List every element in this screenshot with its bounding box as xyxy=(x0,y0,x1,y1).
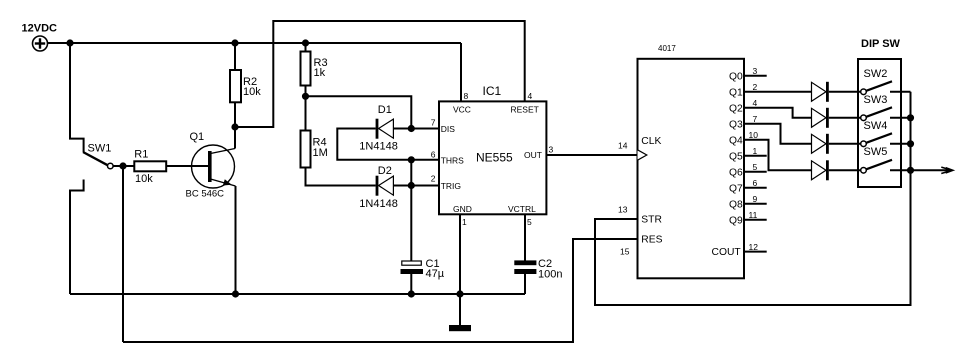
svg-text:7: 7 xyxy=(753,114,758,124)
wire Q9 stub pin11 xyxy=(744,219,767,221)
svg-text:10k: 10k xyxy=(243,86,261,98)
svg-text:Q1: Q1 xyxy=(729,87,743,98)
node junction top rail / R2 xyxy=(232,40,237,45)
svg-text:10: 10 xyxy=(749,130,759,140)
svg-text:GND: GND xyxy=(453,204,472,214)
wire RES pin15 routing to bottom rail xyxy=(123,239,638,342)
svg-text:Q7: Q7 xyxy=(729,183,743,194)
svg-text:DIP SW: DIP SW xyxy=(861,38,901,50)
svg-text:15: 15 xyxy=(620,247,630,257)
svg-text:Q5: Q5 xyxy=(729,151,743,162)
DIP switch box xyxy=(858,59,901,187)
svg-text:7: 7 xyxy=(431,117,436,127)
wire R2 top lead xyxy=(234,43,236,70)
svg-text:D2: D2 xyxy=(378,165,392,177)
capacitor C2 xyxy=(514,260,536,294)
svg-text:D1: D1 xyxy=(378,104,392,116)
wire emitter down to ground rail xyxy=(235,186,237,294)
wire SW1 lower contact to ground rail xyxy=(70,180,84,295)
svg-text:1k: 1k xyxy=(314,67,326,79)
svg-text:STR: STR xyxy=(641,215,662,226)
wire Q2 pin4 to diode xyxy=(744,108,812,118)
op-amp IC1 NE555 box xyxy=(439,101,546,214)
svg-text:NE555: NE555 xyxy=(476,150,513,164)
svg-text:2: 2 xyxy=(753,82,758,92)
node junction SW5 / common / output xyxy=(908,168,913,173)
wire R4 bottom to D2 cathode xyxy=(306,168,376,186)
svg-text:IC1: IC1 xyxy=(483,84,502,98)
svg-text:RES: RES xyxy=(641,235,662,246)
node junction R2 bottom / collector / reset link xyxy=(232,124,237,129)
svg-text:SW4: SW4 xyxy=(864,120,888,132)
transistor Q1 circle xyxy=(192,145,235,188)
node junction GND / ground rail xyxy=(457,291,462,296)
wire output with arrow xyxy=(911,167,954,173)
wire TRIG pin stub xyxy=(411,185,439,187)
wire Q6 stub pin5 xyxy=(744,171,767,173)
wire R1 to Q1 base xyxy=(166,165,208,167)
wire STR pin13 routing to DIP common xyxy=(595,92,911,305)
svg-text:Q2: Q2 xyxy=(729,103,743,114)
switch SW3 xyxy=(861,107,911,120)
wire THRS to TRIG column xyxy=(410,160,412,186)
wire collector to RESET pin4 link xyxy=(235,21,525,127)
svg-text:8: 8 xyxy=(464,91,469,101)
IC 4017 box xyxy=(638,59,745,278)
svg-text:SW1: SW1 xyxy=(88,143,112,155)
wire Q1 pin2 to diode xyxy=(744,91,812,93)
wire node down to bottom rail xyxy=(122,166,124,342)
svg-text:11: 11 xyxy=(749,210,758,220)
wire R2 bottom lead to Q1 collector xyxy=(234,102,236,148)
svg-text:DIS: DIS xyxy=(441,124,456,134)
wire R3 bottom lead to R4 top xyxy=(305,86,307,131)
svg-text:SW3: SW3 xyxy=(864,94,888,106)
svg-text:RESET: RESET xyxy=(511,104,539,114)
wire THRS pin stub xyxy=(411,159,439,161)
svg-text:Q8: Q8 xyxy=(729,199,743,210)
svg-text:R1: R1 xyxy=(134,149,148,161)
wire top supply rail xyxy=(70,42,461,44)
wire Q3 pin7 to diode xyxy=(744,124,812,144)
svg-text:1: 1 xyxy=(462,217,467,227)
wire Q8 stub pin9 xyxy=(744,203,767,205)
switch SW1 blade xyxy=(83,152,108,165)
svg-text:4: 4 xyxy=(528,91,533,101)
svg-text:5: 5 xyxy=(753,162,758,172)
svg-text:5: 5 xyxy=(527,217,532,227)
wire OUT pin3 to CLK pin14 xyxy=(546,154,637,156)
wire GND pin1 down xyxy=(459,214,461,325)
svg-text:100n: 100n xyxy=(538,269,562,281)
svg-text:9: 9 xyxy=(753,194,758,204)
wire power to top rail xyxy=(48,42,71,44)
svg-text:10k: 10k xyxy=(135,173,153,185)
resistor R2 body xyxy=(230,70,241,102)
switch SW5 xyxy=(861,160,911,173)
svg-text:6: 6 xyxy=(753,178,758,188)
svg-text:Q1: Q1 xyxy=(190,131,205,143)
wire D1 cathode to THRS row xyxy=(337,129,411,160)
node junction SW1/R1/reset-rail xyxy=(120,163,125,168)
svg-text:CLK: CLK xyxy=(641,136,661,147)
wire VCTRL pin5 down to C2 xyxy=(524,214,526,261)
power source 12VDC symbol xyxy=(33,36,48,51)
node junction top rail / SW1 branch xyxy=(67,40,72,45)
ground xyxy=(449,325,471,331)
diode D4 (Q2 row) xyxy=(812,108,861,128)
svg-text:13: 13 xyxy=(618,205,628,215)
svg-text:Q9: Q9 xyxy=(729,215,743,226)
clock input triangle xyxy=(638,150,647,160)
svg-text:TRIG: TRIG xyxy=(441,181,461,191)
svg-text:VCTRL: VCTRL xyxy=(508,204,536,214)
diode D6 (Q4 row) xyxy=(812,160,861,180)
node junction DIS xyxy=(409,126,414,131)
svg-text:12VDC: 12VDC xyxy=(22,23,58,35)
switch SW4 xyxy=(861,133,911,146)
svg-text:THRS: THRS xyxy=(441,155,464,165)
diode D3 (Q1 row) xyxy=(812,82,861,102)
wire Q5 stub pin1 xyxy=(744,155,767,157)
svg-text:SW2: SW2 xyxy=(864,68,888,80)
svg-text:OUT: OUT xyxy=(524,150,542,160)
node junction C1 / ground rail xyxy=(409,291,414,296)
svg-text:1N4148: 1N4148 xyxy=(359,198,398,210)
svg-text:47µ: 47µ xyxy=(426,268,445,280)
transistor Q1 emitter diagonal with arrow xyxy=(211,179,236,186)
wire DIS pin stub xyxy=(411,128,439,130)
switch SW2 xyxy=(861,81,911,94)
capacitor C1 polarized xyxy=(401,261,424,294)
svg-text:4: 4 xyxy=(753,98,758,108)
diode D2 xyxy=(376,176,412,196)
diode D1 xyxy=(376,119,412,139)
node junction SW4 / common xyxy=(908,141,913,146)
wire Q4 pin10 to diode xyxy=(744,140,812,171)
svg-text:1N4148: 1N4148 xyxy=(359,141,398,153)
node junction THRS xyxy=(409,157,414,162)
svg-text:Q3: Q3 xyxy=(729,119,743,130)
svg-text:COUT: COUT xyxy=(712,247,742,258)
switch SW1 common circle xyxy=(108,163,114,169)
svg-text:1: 1 xyxy=(753,146,758,156)
resistor R4 body xyxy=(301,131,311,168)
svg-text:12: 12 xyxy=(749,242,759,252)
wire R3 top lead xyxy=(305,43,307,52)
svg-text:14: 14 xyxy=(618,140,628,150)
wire SW1 common to R1 xyxy=(113,165,134,167)
svg-text:6: 6 xyxy=(431,149,436,159)
wire Q7 stub pin6 xyxy=(744,187,767,189)
svg-text:SW5: SW5 xyxy=(864,146,888,158)
svg-text:VCC: VCC xyxy=(453,104,471,114)
svg-text:3: 3 xyxy=(753,66,758,76)
svg-text:4017: 4017 xyxy=(658,44,676,53)
node junction R3 bottom / R4 / DIS link xyxy=(303,94,308,99)
resistor R1 body xyxy=(134,161,166,171)
wire R3 bottom to DIS column xyxy=(306,96,412,128)
node junction emitter / ground rail xyxy=(233,291,238,296)
transistor Q1 base bar xyxy=(208,151,212,182)
svg-text:Q0: Q0 xyxy=(729,71,743,82)
wire COUT stub pin12 xyxy=(744,251,767,253)
node junction SW3 / common xyxy=(908,115,913,120)
transistor Q1 collector diagonal xyxy=(211,149,236,154)
svg-text:Q6: Q6 xyxy=(729,167,743,178)
svg-text:Q4: Q4 xyxy=(729,135,743,146)
svg-text:3: 3 xyxy=(549,144,554,154)
diode D5 (Q3 row) xyxy=(812,134,861,154)
wire TRIG down to C1 xyxy=(410,186,412,262)
wire VCC pin8 drop xyxy=(460,43,462,101)
wire SW1 upper contact from rail xyxy=(70,43,84,152)
resistor R3 body xyxy=(301,52,311,86)
svg-text:1M: 1M xyxy=(313,147,328,159)
svg-text:BC 546C: BC 546C xyxy=(186,189,225,200)
wire Q0 stub pin3 xyxy=(744,75,767,77)
wire ground rail y294 xyxy=(70,293,525,295)
svg-text:2: 2 xyxy=(431,174,436,184)
node junction TRIG xyxy=(409,183,414,188)
node junction top rail / R3 xyxy=(303,40,308,45)
